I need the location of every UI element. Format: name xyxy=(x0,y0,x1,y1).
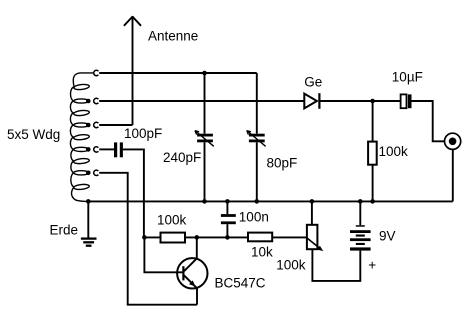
coil winding (plain) 1 xyxy=(73,84,89,90)
svg-text:10k: 10k xyxy=(251,245,273,260)
svg-text:100k: 100k xyxy=(379,144,409,159)
tap junction dot 3 xyxy=(86,123,91,128)
wire tap2 to diode (detector line) xyxy=(99,100,304,102)
svg-text:Ge: Ge xyxy=(304,74,322,89)
svg-text:5x5 Wdg: 5x5 Wdg xyxy=(7,127,60,142)
node dot base feed xyxy=(142,235,147,240)
svg-text:Erde: Erde xyxy=(50,223,79,238)
node dot collector xyxy=(195,235,200,240)
coil tap winding 2 xyxy=(74,99,89,103)
resistor 10k xyxy=(248,233,272,242)
node dot top of 240pF xyxy=(202,71,207,76)
rail node dot 100k load xyxy=(370,199,375,204)
rail node dot battery xyxy=(358,199,363,204)
battery 9V xyxy=(350,201,371,250)
svg-text:80pF: 80pF xyxy=(267,156,298,171)
wire 100pF to base network xyxy=(123,149,144,237)
svg-text:10µF: 10µF xyxy=(392,70,423,85)
coil tap winding 5 xyxy=(74,171,89,175)
svg-text:100n: 100n xyxy=(239,209,269,224)
rail node dot 240pF xyxy=(202,199,207,204)
rail node dot 80pF xyxy=(254,199,259,204)
coil winding (plain) 4 xyxy=(73,158,89,164)
svg-text:Antenne: Antenne xyxy=(148,29,198,44)
svg-text:100k: 100k xyxy=(276,258,306,273)
svg-text:100pF: 100pF xyxy=(124,126,162,141)
node dot diode output xyxy=(370,99,375,104)
capacitor 100n xyxy=(221,201,236,237)
tap hook 1 xyxy=(94,70,99,75)
output jack connector xyxy=(445,133,461,201)
wire tap5 to emitter xyxy=(99,173,197,305)
tap hook 3 xyxy=(94,122,99,127)
capacitor 100pF xyxy=(114,142,123,157)
tap hook 5 xyxy=(94,170,99,175)
rail node dot 100n xyxy=(225,199,230,204)
transistor Q1 BC547C xyxy=(177,258,207,305)
coil winding (plain) 2 xyxy=(73,110,89,116)
ground rail wire xyxy=(88,200,453,202)
tap junction dot 4 xyxy=(86,147,91,152)
wire 100k to 10k xyxy=(185,236,248,238)
wire 10k to potentiometer wiper xyxy=(272,236,307,238)
wire tap4 to 100pF xyxy=(99,148,114,150)
tap hook 2 xyxy=(94,98,99,103)
tap junction dot 2 xyxy=(86,99,91,104)
wire collector node line xyxy=(144,236,160,238)
variable capacitor 240pF xyxy=(195,73,214,201)
wire tap1 to tuning capacitors top xyxy=(99,72,257,74)
coil winding (plain) 5 xyxy=(73,184,89,190)
tap hook 4 xyxy=(94,147,99,152)
coil winding (plain) 3 xyxy=(73,134,89,140)
svg-text:BC547C: BC547C xyxy=(215,275,266,290)
svg-text:9V: 9V xyxy=(379,229,396,244)
wire collector vertical xyxy=(196,237,198,258)
wire base feed vertical xyxy=(144,237,183,272)
variable capacitor 80pF xyxy=(247,73,266,201)
tap junction dot 5 xyxy=(86,171,91,176)
resistor 100k (feedback) xyxy=(161,233,186,243)
coil tap winding 4 xyxy=(74,147,89,151)
resistor 100k (right, load) xyxy=(368,101,377,201)
earth ground symbol xyxy=(81,201,97,245)
wire diode node to 10uF xyxy=(373,100,401,102)
node dot 100n bottom xyxy=(225,235,230,240)
diode Ge xyxy=(304,93,372,109)
svg-text:240pF: 240pF xyxy=(163,150,201,165)
rail node dot coil bottom xyxy=(86,199,91,204)
rail node dot potentiometer xyxy=(310,199,315,204)
coil L1 left winding wave xyxy=(70,73,93,202)
svg-text:+: + xyxy=(368,258,376,273)
svg-text:100k: 100k xyxy=(157,212,187,227)
wire 10uF to output jack xyxy=(412,101,445,141)
coil tap winding 3 xyxy=(74,123,89,127)
potentiometer 100k xyxy=(307,201,360,281)
wire tap3 to antenna xyxy=(99,124,132,126)
capacitor 10uF (electrolytic) xyxy=(401,94,412,108)
antenna symbol xyxy=(124,16,141,125)
